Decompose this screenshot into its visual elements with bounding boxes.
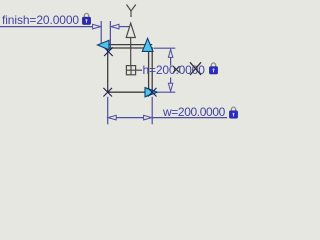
svg-text:w=200.0000: w=200.0000 [162,105,226,119]
svg-text:finish=20.0000: finish=20.0000 [2,13,79,27]
